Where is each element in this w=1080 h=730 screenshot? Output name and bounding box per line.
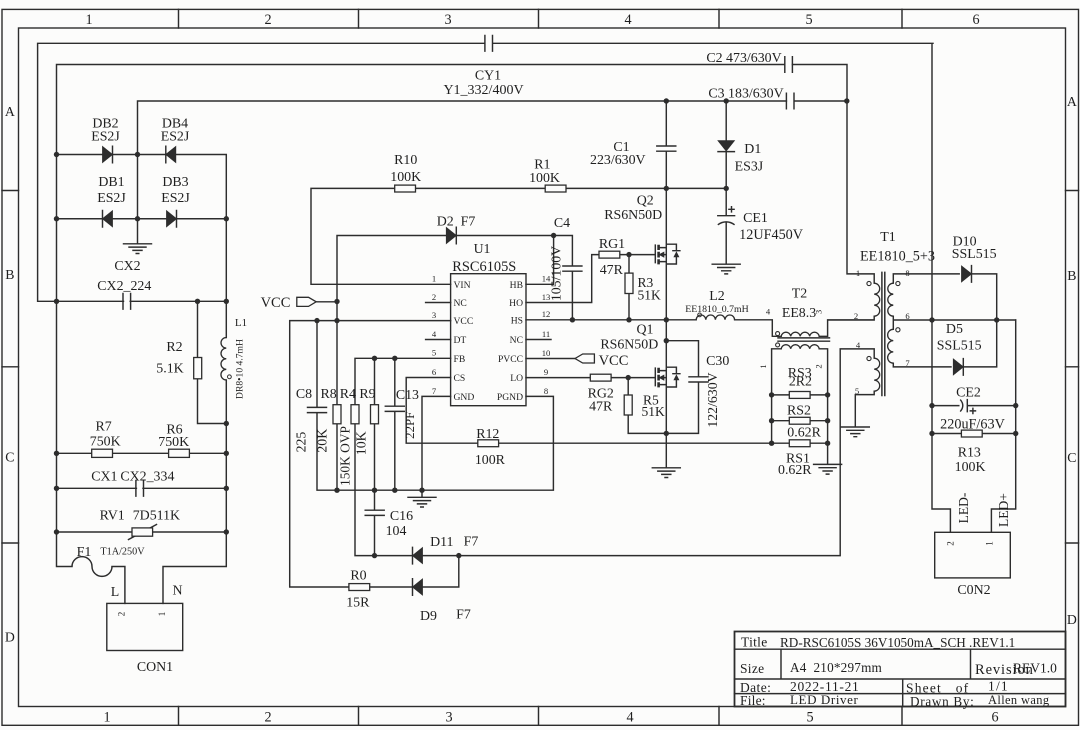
svg-text:3: 3 xyxy=(444,12,451,28)
svg-text:5.1K: 5.1K xyxy=(156,361,183,376)
svg-text:ES2J: ES2J xyxy=(91,130,120,145)
svg-text:VCC: VCC xyxy=(599,353,629,369)
svg-text:Allen wang: Allen wang xyxy=(988,693,1049,707)
svg-text:GND: GND xyxy=(454,392,475,403)
svg-text:L1: L1 xyxy=(235,317,247,329)
svg-text:D11: D11 xyxy=(430,535,453,550)
svg-text:750K: 750K xyxy=(90,434,121,449)
svg-text:2R2: 2R2 xyxy=(789,375,812,390)
svg-text:Size: Size xyxy=(740,661,764,676)
svg-text:CX2_334: CX2_334 xyxy=(120,469,174,484)
svg-text:REV1.0: REV1.0 xyxy=(1013,661,1057,676)
svg-text:LO: LO xyxy=(510,373,523,384)
svg-text:F7: F7 xyxy=(464,535,479,550)
svg-text:ES3J: ES3J xyxy=(735,160,764,175)
svg-text:F1: F1 xyxy=(77,545,92,560)
svg-text:EE1810_0.7mH: EE1810_0.7mH xyxy=(685,304,748,315)
svg-text:5: 5 xyxy=(806,709,813,725)
svg-text:PGND: PGND xyxy=(497,392,523,403)
svg-text:13: 13 xyxy=(542,292,551,302)
svg-text:223/630V: 223/630V xyxy=(590,153,646,168)
svg-text:CS: CS xyxy=(454,373,466,384)
svg-text:Title: Title xyxy=(741,635,768,650)
svg-text:225: 225 xyxy=(294,432,309,453)
svg-text:104: 104 xyxy=(386,524,407,539)
svg-text:NC: NC xyxy=(454,298,467,309)
svg-text:RSC6105S: RSC6105S xyxy=(452,259,516,275)
svg-text:C16: C16 xyxy=(390,509,413,524)
svg-text:1/1: 1/1 xyxy=(988,679,1009,694)
svg-text:20K: 20K xyxy=(314,429,329,453)
svg-text:51K: 51K xyxy=(638,287,662,302)
svg-text:100K: 100K xyxy=(390,170,421,185)
svg-text:R0: R0 xyxy=(350,568,366,583)
svg-text:51K: 51K xyxy=(642,404,666,419)
svg-text:6: 6 xyxy=(432,367,437,377)
svg-text:C30: C30 xyxy=(706,354,729,369)
svg-text:3: 3 xyxy=(814,310,824,314)
svg-text:D5: D5 xyxy=(946,322,963,337)
svg-text:D: D xyxy=(5,630,15,645)
svg-text:C8: C8 xyxy=(296,387,312,402)
svg-text:B: B xyxy=(1067,268,1076,283)
svg-text:L: L xyxy=(111,585,120,600)
svg-text:1: 1 xyxy=(856,268,860,278)
svg-text:CY1: CY1 xyxy=(475,69,501,84)
svg-text:LED-: LED- xyxy=(956,492,971,523)
svg-text:4: 4 xyxy=(624,12,631,28)
svg-text:PVCC: PVCC xyxy=(498,354,523,365)
svg-text:4: 4 xyxy=(626,709,633,725)
svg-text:Q2: Q2 xyxy=(637,193,654,208)
svg-text:5: 5 xyxy=(805,12,812,28)
svg-text:100K: 100K xyxy=(955,460,986,475)
svg-text:R10: R10 xyxy=(394,153,417,168)
svg-text:Y1_332/400V: Y1_332/400V xyxy=(443,83,523,98)
svg-text:105/100V: 105/100V xyxy=(549,246,564,301)
svg-text:C: C xyxy=(5,450,14,465)
svg-text:SSL515: SSL515 xyxy=(937,338,982,353)
svg-text:Drawn By:: Drawn By: xyxy=(910,694,975,709)
svg-text:L2: L2 xyxy=(709,289,724,304)
svg-text:750K: 750K xyxy=(158,435,189,450)
svg-text:CE1: CE1 xyxy=(743,211,768,226)
svg-text:2: 2 xyxy=(946,541,956,546)
svg-text:CX1: CX1 xyxy=(91,469,117,484)
svg-text:7: 7 xyxy=(432,386,437,396)
svg-text:2: 2 xyxy=(264,12,271,28)
svg-text:1: 1 xyxy=(103,709,110,725)
svg-text:D: D xyxy=(1067,612,1077,627)
svg-text:11: 11 xyxy=(542,329,550,339)
svg-text:CE2: CE2 xyxy=(956,385,981,400)
svg-text:12UF450V: 12UF450V xyxy=(739,227,804,243)
svg-text:HS: HS xyxy=(511,315,523,326)
svg-text:RS2: RS2 xyxy=(787,403,811,418)
svg-text:8: 8 xyxy=(905,268,909,278)
svg-text:LED Driver: LED Driver xyxy=(790,692,859,707)
svg-text:DB3: DB3 xyxy=(162,175,188,190)
svg-text:C4: C4 xyxy=(554,216,570,231)
svg-text:10: 10 xyxy=(542,348,551,358)
svg-text:220uF/63V: 220uF/63V xyxy=(940,417,1005,433)
svg-text:47R: 47R xyxy=(600,263,624,278)
svg-text:VIN: VIN xyxy=(454,280,471,291)
svg-text:R8: R8 xyxy=(320,387,336,402)
svg-text:7D511K: 7D511K xyxy=(133,508,180,523)
svg-text:FB: FB xyxy=(454,354,466,365)
svg-text:4: 4 xyxy=(856,340,861,350)
svg-text:VCC: VCC xyxy=(454,316,474,327)
svg-text:U1: U1 xyxy=(474,241,491,256)
svg-text:SSL515: SSL515 xyxy=(952,247,997,262)
svg-text:6: 6 xyxy=(905,311,910,321)
svg-text:3: 3 xyxy=(445,709,452,725)
svg-text:D2 F7: D2 F7 xyxy=(437,215,476,230)
svg-text:RS6N50D: RS6N50D xyxy=(600,337,658,352)
svg-text:RS6N50D: RS6N50D xyxy=(604,208,662,223)
svg-text:15R: 15R xyxy=(346,595,370,610)
svg-text:EE1810_5+3: EE1810_5+3 xyxy=(860,248,935,264)
svg-text:22PF: 22PF xyxy=(403,412,417,439)
svg-text:122/630V: 122/630V xyxy=(705,372,720,427)
svg-text:C2 473/630V: C2 473/630V xyxy=(706,51,781,66)
svg-text:R9: R9 xyxy=(359,387,375,402)
svg-text:100K: 100K xyxy=(529,171,560,186)
svg-text:NC: NC xyxy=(510,335,523,346)
svg-text:1: 1 xyxy=(758,364,768,368)
svg-text:2: 2 xyxy=(432,292,436,302)
svg-text:EE8.3: EE8.3 xyxy=(782,306,816,321)
svg-text:A4 210*297mm: A4 210*297mm xyxy=(790,660,883,675)
svg-text:R13: R13 xyxy=(958,445,981,460)
svg-text:R2: R2 xyxy=(166,340,182,355)
svg-text:RD-RSC6105S 36V1050mA_SCH .REV: RD-RSC6105S 36V1050mA_SCH .REV1.1 xyxy=(780,635,1015,650)
svg-text:CX2: CX2 xyxy=(114,259,140,274)
svg-text:ES2J: ES2J xyxy=(97,191,126,206)
svg-text:8: 8 xyxy=(544,386,548,396)
svg-text:0.62R: 0.62R xyxy=(787,426,821,441)
svg-text:A: A xyxy=(5,104,15,119)
svg-text:DB1: DB1 xyxy=(98,175,124,190)
svg-text:10K: 10K xyxy=(353,431,368,455)
svg-text:C3 183/630V: C3 183/630V xyxy=(708,87,783,102)
svg-text:Q1: Q1 xyxy=(637,322,654,337)
svg-text:2: 2 xyxy=(854,311,858,321)
svg-text:1: 1 xyxy=(985,541,995,546)
svg-text:N: N xyxy=(172,584,182,599)
svg-text:DR8•10 4.7mH: DR8•10 4.7mH xyxy=(235,339,246,399)
svg-text:4: 4 xyxy=(432,329,437,339)
svg-text:7: 7 xyxy=(905,358,910,368)
svg-text:2: 2 xyxy=(264,709,271,725)
svg-text:VCC: VCC xyxy=(261,295,291,311)
svg-text:4: 4 xyxy=(766,307,771,317)
svg-text:9: 9 xyxy=(544,367,548,377)
svg-text:D1: D1 xyxy=(744,142,761,157)
svg-text:2: 2 xyxy=(117,612,127,617)
svg-text:6: 6 xyxy=(972,12,979,28)
svg-text:C: C xyxy=(1067,450,1076,465)
svg-text:150K OVP: 150K OVP xyxy=(338,426,353,486)
svg-text:2: 2 xyxy=(814,364,824,368)
svg-text:0.62R: 0.62R xyxy=(778,463,812,478)
svg-text:T1: T1 xyxy=(880,230,895,245)
svg-text:1: 1 xyxy=(85,12,92,28)
svg-text:DT: DT xyxy=(454,335,467,346)
svg-text:5: 5 xyxy=(855,386,859,396)
svg-text:1: 1 xyxy=(157,612,167,617)
svg-text:T2: T2 xyxy=(792,286,807,301)
svg-text:CON1: CON1 xyxy=(137,660,173,675)
svg-text:R4: R4 xyxy=(340,387,356,402)
svg-text:3: 3 xyxy=(432,310,436,320)
svg-text:HO: HO xyxy=(509,298,523,309)
svg-text:1: 1 xyxy=(432,274,436,284)
svg-text:LED+: LED+ xyxy=(996,493,1011,527)
svg-text:B: B xyxy=(5,267,14,282)
svg-text:12: 12 xyxy=(542,309,551,319)
svg-text:C0N2: C0N2 xyxy=(957,583,990,598)
svg-text:R7: R7 xyxy=(95,419,111,434)
svg-text:RG1: RG1 xyxy=(599,237,625,252)
svg-text:ES2J: ES2J xyxy=(161,130,190,145)
svg-text:D9: D9 xyxy=(420,609,437,624)
svg-text:6: 6 xyxy=(991,709,998,725)
svg-text:HB: HB xyxy=(510,280,523,291)
svg-text:T1A/250V: T1A/250V xyxy=(100,547,145,558)
svg-text:A: A xyxy=(1067,94,1077,109)
svg-text:CX2_224: CX2_224 xyxy=(97,279,151,294)
svg-text:F7: F7 xyxy=(456,608,471,623)
svg-text:100R: 100R xyxy=(475,453,506,468)
svg-text:14: 14 xyxy=(542,274,551,284)
svg-text:ES2J: ES2J xyxy=(161,191,190,206)
svg-text:47R: 47R xyxy=(589,399,613,414)
svg-text:File:: File: xyxy=(740,693,766,708)
svg-text:R12: R12 xyxy=(476,427,499,442)
svg-text:5: 5 xyxy=(432,348,436,358)
svg-text:C13: C13 xyxy=(396,388,419,403)
svg-text:RV1: RV1 xyxy=(100,508,125,523)
